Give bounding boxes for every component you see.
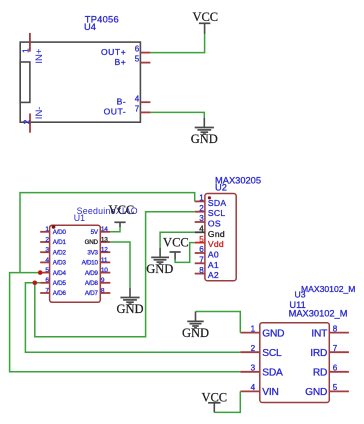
U1 pin 1 A/D0 (40, 226, 66, 236)
power flag VCC (below left of U3) (201, 391, 227, 413)
power flag VCC (over U1 title) (109, 203, 135, 227)
U4 pin 2 IN- (22, 107, 45, 133)
U2 title MAX30205 (215, 176, 261, 193)
power flag VCC (top) (192, 10, 218, 33)
U1 pin 7 A/D6 (40, 287, 66, 297)
U1 pin 5 A/D4 (40, 267, 66, 277)
U1 pin 13 GND (85, 236, 111, 246)
U1 pin 11 A/D10 (82, 257, 111, 267)
svg-text:5V: 5V (91, 229, 99, 236)
U3 title block (289, 284, 356, 318)
svg-text:7: 7 (135, 105, 140, 114)
svg-text:A0: A0 (208, 250, 219, 260)
svg-text:A/D4: A/D4 (53, 270, 67, 277)
wire U4.6 to VCC (150, 33, 204, 53)
svg-text:A/D0: A/D0 (53, 229, 67, 236)
wire U2.4 to GND (160, 232, 195, 248)
ground GND (left of U3) (182, 312, 209, 340)
svg-text:3: 3 (199, 214, 204, 223)
U2 pin 6 A0 (195, 245, 219, 259)
U1 title SeeduinoXIAO (74, 206, 138, 223)
U4 pin 6 OUT+ (101, 45, 150, 57)
junction dot U1.6 / SCL net (33, 281, 38, 286)
svg-text:RD: RD (313, 368, 327, 379)
svg-text:6: 6 (199, 245, 204, 254)
ground GND (below U1) (116, 288, 143, 317)
svg-text:8: 8 (101, 287, 105, 294)
wire SDA: U1.5 to U3.3 (10, 273, 241, 372)
U1 pin 10 A/D9 (85, 267, 110, 277)
U3 pin 2 SCL (240, 344, 282, 359)
svg-text:14: 14 (101, 226, 108, 233)
U2 pin-1 marker dot (208, 196, 211, 199)
junction dot U1.5 / SDA net (38, 270, 43, 275)
svg-text:SCL: SCL (208, 208, 225, 218)
svg-text:SCL: SCL (262, 348, 282, 359)
svg-text:7: 7 (333, 344, 338, 353)
wire U2.5 to VCC hook (175, 243, 195, 263)
svg-text:Vdd: Vdd (208, 239, 224, 249)
U3 pin 5 GND (305, 383, 349, 398)
wire SCL: U1.6 to U3.2 (25, 283, 240, 352)
U2 pin 5 Vdd (195, 235, 224, 249)
svg-text:A2: A2 (208, 270, 219, 280)
svg-text:GND: GND (146, 262, 173, 276)
svg-text:2: 2 (199, 204, 204, 213)
U3 pin 6 RD (313, 364, 349, 379)
svg-text:IRD: IRD (310, 348, 327, 359)
svg-text:6: 6 (333, 364, 338, 373)
U2 pin 3 OS (195, 214, 221, 228)
svg-text:VCC: VCC (201, 391, 227, 405)
U2 pin 1 SDA (195, 194, 227, 208)
U1 pin 2 A/D1 (40, 236, 66, 246)
svg-text:GND: GND (305, 387, 327, 398)
svg-text:A1: A1 (208, 260, 219, 270)
U1 pin 6 A/D5 (40, 277, 66, 287)
svg-text:2: 2 (45, 236, 49, 243)
svg-text:U1: U1 (74, 213, 85, 223)
svg-text:A/D5: A/D5 (53, 280, 67, 287)
svg-text:11: 11 (101, 257, 108, 264)
svg-text:VCC: VCC (109, 203, 135, 217)
svg-text:GND: GND (182, 326, 209, 340)
svg-text:9: 9 (101, 277, 105, 284)
svg-text:IN+: IN+ (34, 48, 45, 64)
U1 pin 4 A/D3 (40, 257, 66, 267)
svg-text:7: 7 (45, 287, 49, 294)
U1 pin-1 marker dot (52, 225, 56, 229)
IC U3 MAX30102_M body (260, 323, 330, 403)
svg-text:GND: GND (191, 132, 218, 146)
svg-text:SDA: SDA (262, 368, 283, 379)
svg-text:GND: GND (85, 239, 99, 246)
svg-text:5: 5 (45, 267, 49, 274)
ground GND (left of U2) (146, 248, 173, 276)
svg-text:3: 3 (251, 364, 256, 373)
U2 pin 2 SCL (195, 204, 226, 218)
svg-text:SDA: SDA (208, 198, 226, 208)
svg-text:4: 4 (199, 225, 204, 234)
svg-text:A/D9: A/D9 (85, 270, 99, 277)
svg-text:Gnd: Gnd (208, 229, 225, 239)
svg-text:A/D3: A/D3 (53, 260, 67, 267)
U1 pin 3 A/D2 (40, 247, 66, 257)
svg-text:5: 5 (199, 235, 204, 244)
svg-text:3V3: 3V3 (87, 249, 98, 256)
svg-text:10: 10 (101, 267, 108, 274)
svg-text:1: 1 (199, 194, 204, 203)
svg-text:7: 7 (199, 256, 204, 265)
U2 pin 4 Gnd (195, 225, 225, 239)
U1 pin 12 3V3 (87, 247, 110, 257)
svg-text:1: 1 (45, 226, 49, 233)
svg-text:8: 8 (199, 266, 204, 275)
wire U3.4 to VCC (214, 391, 240, 412)
svg-text:VIN: VIN (262, 387, 278, 398)
svg-text:A/D2: A/D2 (53, 249, 67, 256)
svg-text:OUT-: OUT- (104, 107, 127, 117)
U2 pin 8 A2 (195, 266, 219, 280)
ground GND (top right) (191, 118, 218, 146)
svg-text:13: 13 (101, 236, 108, 243)
wire U1.13 to GND (110, 242, 130, 288)
U4 pin 4 B- (117, 94, 151, 106)
U4 pin 1 IN+ (22, 33, 45, 64)
svg-text:MAX30102_M: MAX30102_M (289, 309, 348, 319)
svg-text:5: 5 (333, 383, 338, 392)
svg-text:8: 8 (333, 324, 338, 333)
svg-text:6: 6 (45, 277, 49, 284)
U3 pin 7 IRD (310, 344, 349, 359)
U3 pin 1 GND (240, 324, 284, 339)
svg-text:INT: INT (311, 328, 327, 339)
IC U4 TP4056 body (20, 42, 140, 122)
svg-text:VCC: VCC (163, 236, 189, 250)
svg-text:1: 1 (22, 48, 31, 53)
U4 pin 5 B+ (114, 55, 150, 67)
svg-text:12: 12 (101, 247, 108, 254)
svg-text:VCC: VCC (192, 10, 218, 24)
svg-text:GND: GND (116, 302, 143, 316)
svg-text:5: 5 (135, 55, 140, 64)
svg-text:A/D7: A/D7 (85, 290, 99, 297)
svg-text:A/D6: A/D6 (53, 290, 67, 297)
svg-text:A/D1: A/D1 (53, 239, 67, 246)
U1 pin 14 5V (91, 226, 111, 236)
svg-text:4: 4 (251, 383, 256, 392)
U2 pin 7 A1 (195, 256, 219, 270)
svg-text:A/D8: A/D8 (85, 280, 99, 287)
svg-text:6: 6 (135, 45, 140, 54)
U1 pin 9 A/D8 (85, 277, 110, 287)
wire U4.7 to GND (150, 112, 204, 118)
svg-text:B+: B+ (114, 57, 126, 67)
svg-text:A/D10: A/D10 (82, 260, 99, 267)
svg-text:U2: U2 (215, 182, 227, 192)
svg-text:B-: B- (117, 96, 127, 106)
svg-text:1: 1 (251, 324, 256, 333)
svg-text:4: 4 (135, 94, 140, 103)
wire SCL: U2.2 to U1.6 (35, 212, 195, 337)
wire U3.1 to GND (196, 312, 241, 333)
IC U1 Seeeduino XIAO body (50, 225, 101, 302)
svg-text:U4: U4 (84, 22, 96, 32)
IC U2 MAX30205 body (205, 194, 236, 281)
svg-text:4: 4 (45, 257, 49, 264)
svg-text:OS: OS (208, 219, 221, 229)
svg-text:U3: U3 (295, 290, 306, 300)
power flag VCC (left of U2) (163, 236, 189, 260)
svg-text:OUT+: OUT+ (101, 47, 126, 57)
U3 pin 4 VIN (240, 383, 278, 398)
svg-text:2: 2 (251, 344, 256, 353)
U3 pin 3 SDA (240, 364, 283, 379)
wire SDA: U2.1 left run (20, 193, 195, 273)
wire U1.14 to VCC (110, 227, 120, 232)
svg-text:GND: GND (262, 328, 284, 339)
svg-text:IN-: IN- (34, 107, 45, 120)
svg-text:MAX30102_M: MAX30102_M (301, 284, 355, 294)
U3 pin 8 INT (311, 324, 349, 339)
U4 pin 7 OUT- (104, 105, 151, 117)
U4 title TP4056 (84, 15, 119, 32)
svg-text:3: 3 (45, 247, 49, 254)
U1 pin 8 A/D7 (85, 287, 110, 297)
svg-text:2: 2 (22, 119, 31, 124)
